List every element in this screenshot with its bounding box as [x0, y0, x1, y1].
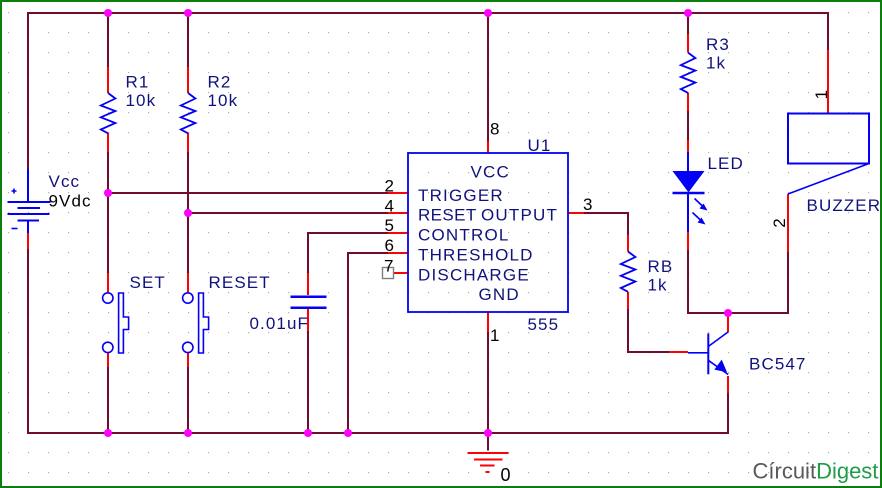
wire ground stub: [487, 433, 489, 451]
U1 pin names: [418, 163, 558, 305]
pin stub Q1 collector: [727, 313, 729, 332]
node collector: [724, 309, 732, 317]
pin stub battery bottom: [27, 233, 29, 249]
pin stub R2 bottom: [187, 133, 189, 152]
pin stub buzzer pin2: [787, 194, 789, 252]
svg-text:0: 0: [501, 465, 512, 485]
pin stub LED anode: [687, 140, 689, 152]
buzzer LS1: [788, 114, 869, 195]
svg-text:BUZZER: BUZZER: [807, 196, 882, 215]
wire RESET lower: [187, 367, 189, 434]
capacitor C1 0.01uF: [291, 297, 327, 308]
pin stub SET top: [107, 273, 109, 292]
wire SET lower: [107, 367, 109, 434]
wire LED cathode down: [687, 250, 689, 314]
pin stub Q1 emitter: [727, 376, 729, 393]
wire pin1 gnd vertical: [487, 332, 489, 434]
svg-text:3: 3: [583, 195, 594, 214]
node bus-threshold: [344, 429, 352, 437]
svg-text:10k: 10k: [208, 91, 239, 110]
pin stub RB bottom: [627, 292, 629, 309]
svg-text:2: 2: [385, 177, 396, 196]
wire R1 bottom lead: [107, 152, 109, 193]
svg-text:CírcuitDigest: CírcuitDigest: [753, 459, 879, 484]
svg-text:RB: RB: [648, 257, 674, 276]
wire emitter down: [727, 393, 729, 434]
wire top bus: [28, 12, 828, 14]
pin stub SET bottom: [107, 353, 109, 367]
svg-text:8: 8: [490, 120, 501, 139]
wire capacitor top: [307, 232, 309, 274]
LED D1: [673, 152, 708, 232]
wire R2 top lead: [187, 12, 189, 67]
svg-text:1k: 1k: [648, 276, 668, 295]
wire pin6 threshold: [348, 252, 388, 254]
svg-text:VCC: VCC: [471, 163, 511, 182]
pin7 open terminal square: [383, 268, 394, 279]
svg-text:R1: R1: [126, 73, 150, 92]
svg-text:R3: R3: [706, 35, 730, 54]
svg-text:BC547: BC547: [749, 355, 806, 374]
svg-text:RESET: RESET: [209, 273, 271, 292]
pin stub capacitor top: [307, 273, 309, 295]
pin stub U1 pin8: [487, 141, 489, 153]
pin stub R3 bottom: [687, 93, 689, 111]
pin stub LED cathode: [687, 232, 689, 250]
svg-text:U1: U1: [528, 136, 552, 155]
switch SET: [103, 293, 129, 353]
node top-R3: [684, 9, 692, 17]
node bus-cap: [304, 429, 312, 437]
svg-text:RESET: RESET: [418, 206, 477, 225]
node top-R1: [104, 9, 112, 17]
resistor R1: [101, 93, 116, 133]
node bus-SET: [104, 429, 112, 437]
pin stub R1 top: [107, 67, 109, 93]
svg-text:1: 1: [490, 326, 501, 345]
svg-text:9Vdc: 9Vdc: [49, 192, 92, 211]
svg-text:6: 6: [385, 236, 396, 255]
wire capacitor bottom: [307, 331, 309, 434]
wire pin6 vertical: [347, 252, 349, 434]
wire R3 to LED: [687, 111, 689, 140]
pin stub R1 bottom: [107, 133, 109, 152]
wire bottom bus: [28, 432, 728, 434]
pin stub Q1 base: [669, 351, 688, 353]
wire R3 top lead: [687, 12, 689, 34]
svg-text:SET: SET: [130, 273, 166, 292]
wire RB top: [627, 212, 629, 235]
pin stub R2 top: [187, 67, 189, 93]
node top-R2: [184, 9, 192, 17]
resistor RB: [621, 252, 636, 292]
pin stub U1 pin7: [394, 272, 408, 274]
svg-text:1k: 1k: [706, 54, 726, 73]
wire RB bottom: [627, 309, 629, 353]
svg-text:GND: GND: [479, 285, 520, 304]
svg-text:7: 7: [384, 257, 395, 276]
wire SET upper: [107, 193, 109, 273]
node bus-gnd: [484, 429, 492, 437]
svg-text:DISCHARGE: DISCHARGE: [418, 266, 530, 285]
svg-text:TRIGGER: TRIGGER: [418, 186, 504, 205]
node bus-RESET: [184, 429, 192, 437]
svg-text:2: 2: [770, 217, 789, 228]
wire R2 bottom lead: [187, 152, 189, 213]
wire left rail upper (battery +): [27, 12, 29, 169]
wire pin4 reset: [188, 212, 388, 214]
svg-text:5: 5: [385, 216, 396, 235]
svg-text:OUTPUT: OUTPUT: [481, 206, 558, 225]
wire pin3 output horizontal: [584, 212, 629, 214]
wire pin5 control: [308, 232, 388, 234]
op-amp U1 555 box: [408, 153, 568, 312]
svg-text:R2: R2: [208, 73, 232, 92]
svg-text:555: 555: [528, 315, 560, 334]
pin stub RESET bottom: [187, 353, 189, 367]
pin stub RESET top: [187, 273, 189, 292]
transistor Q1 BC547: [688, 332, 728, 375]
svg-text:0.01uF: 0.01uF: [250, 314, 310, 333]
battery V1 Vcc 9Vdc: [8, 169, 51, 233]
CircuitDigest logo: [753, 459, 879, 484]
pin stub R3 top: [687, 34, 689, 53]
wire pin8 vcc vertical: [487, 13, 489, 141]
node top-pin8: [484, 9, 492, 17]
wire LED row horizontal: [688, 312, 788, 314]
node trigger tap: [104, 189, 112, 197]
wire buzzer pin2 down: [787, 252, 789, 314]
svg-text:CONTROL: CONTROL: [418, 226, 510, 245]
wire R1 top lead: [107, 12, 109, 67]
svg-text:THRESHOLD: THRESHOLD: [418, 246, 534, 265]
svg-text:10k: 10k: [126, 91, 157, 110]
svg-text:Vcc: Vcc: [49, 172, 81, 191]
pin stub U1 pin3: [568, 212, 584, 214]
node reset tap: [184, 209, 192, 217]
svg-text:1: 1: [812, 89, 831, 100]
ground symbol: [468, 453, 509, 472]
pin stub U1 pin4: [388, 212, 408, 214]
switch RESET: [183, 293, 209, 353]
wire base horizontal: [627, 351, 669, 353]
wire RESET upper: [187, 213, 189, 273]
pin stub buzzer pin1: [827, 50, 829, 114]
pin stub U1 pin2: [388, 192, 408, 194]
pin stub U1 pin5: [388, 232, 408, 234]
pin stub RB top: [627, 235, 629, 252]
resistor R3: [681, 53, 696, 93]
resistor R2: [181, 93, 196, 133]
wire left rail lower (battery -): [27, 249, 29, 434]
wire buzzer pin1 top: [827, 12, 829, 50]
pin stub U1 pin1: [487, 312, 489, 332]
svg-text:4: 4: [385, 197, 396, 216]
svg-text:LED: LED: [708, 154, 744, 173]
pin stub U1 pin6: [388, 252, 408, 254]
wire pin2 trigger: [108, 192, 388, 194]
pin stub capacitor bottom: [307, 309, 309, 331]
